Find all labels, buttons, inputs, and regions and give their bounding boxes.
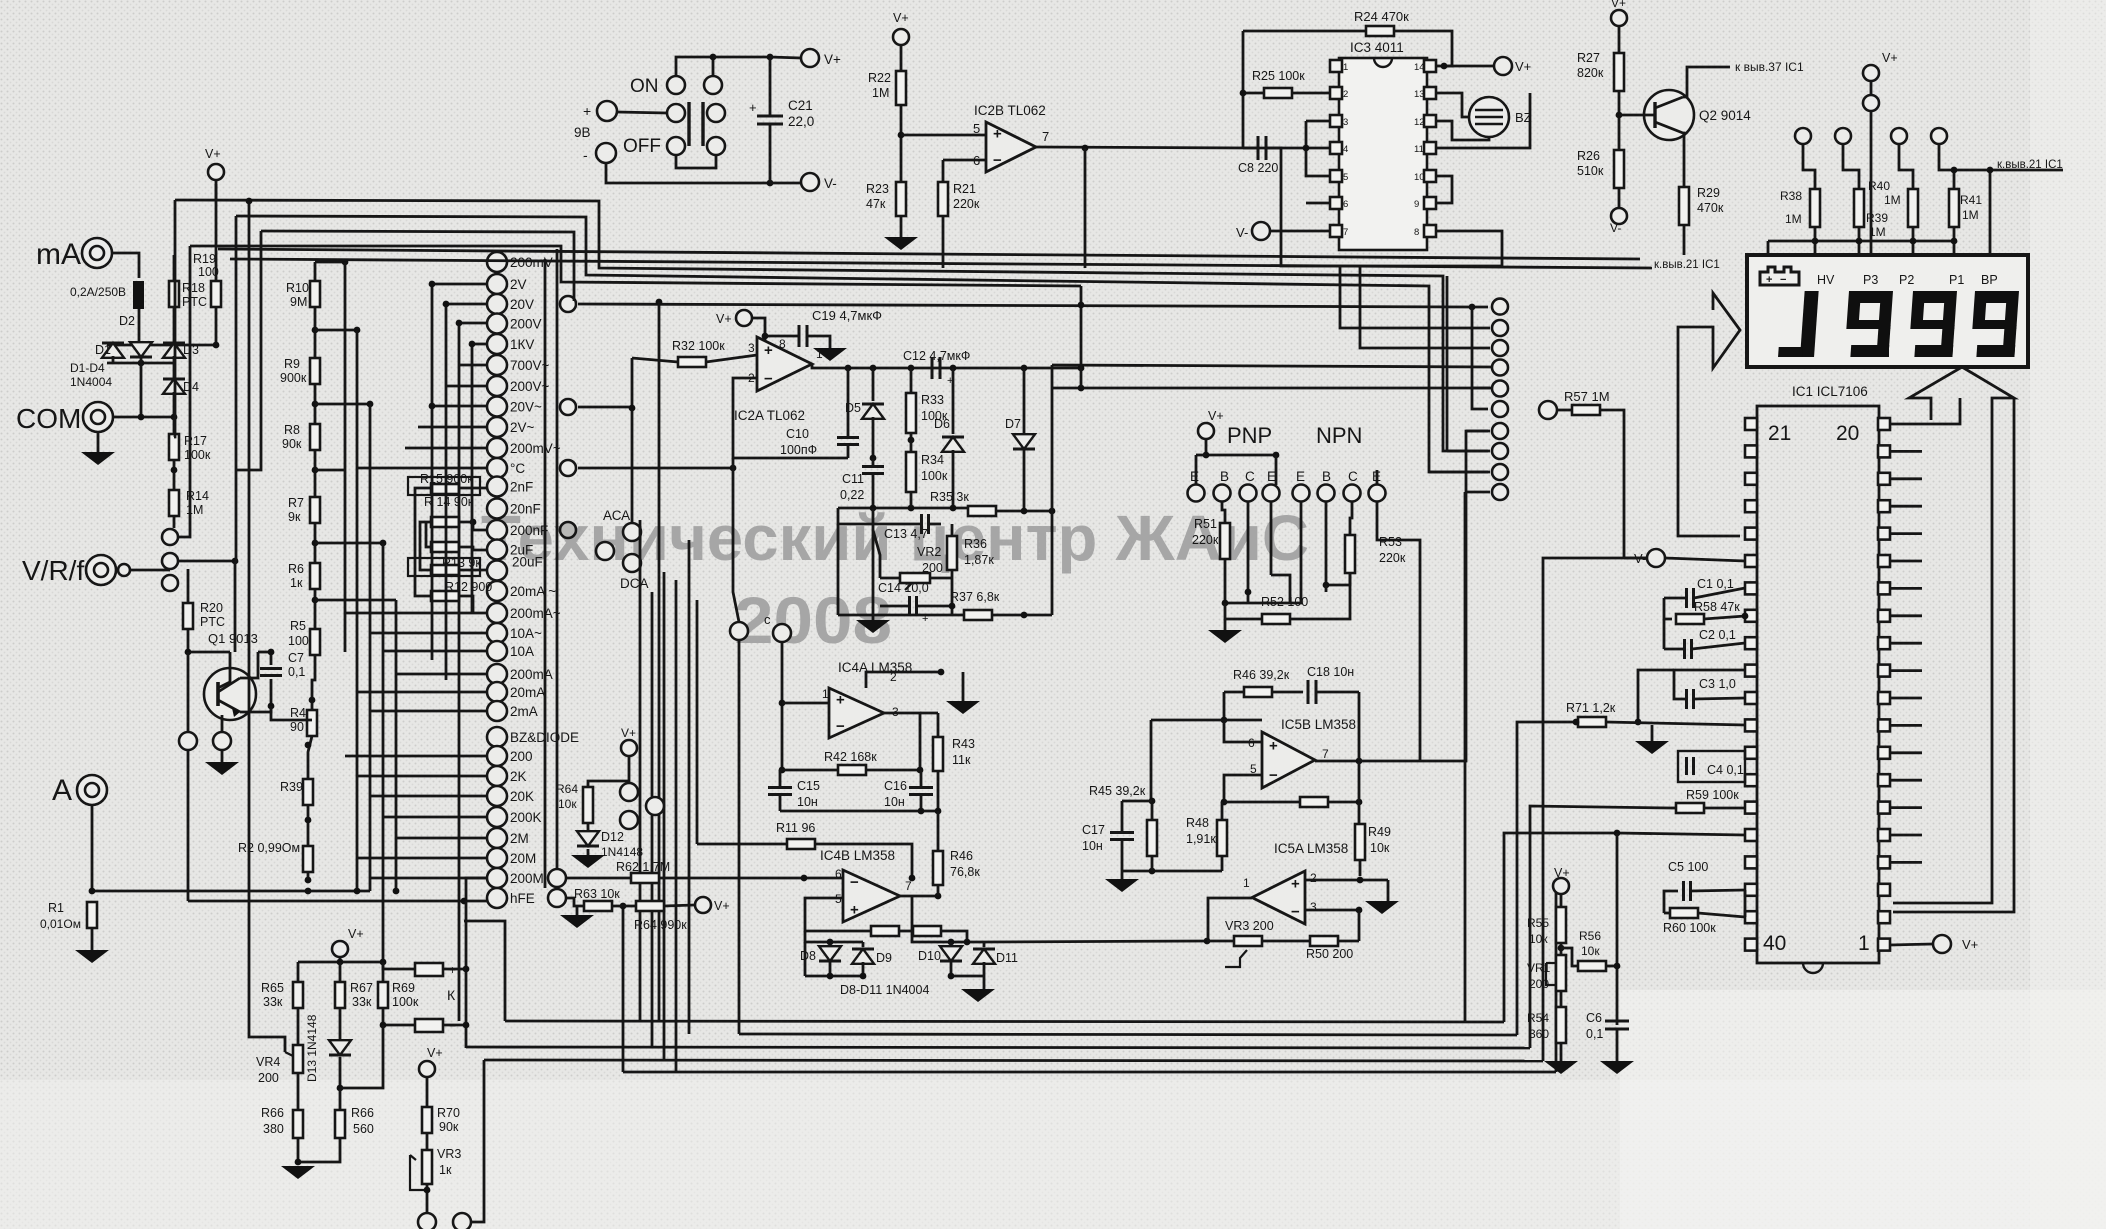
switch contact 2nF	[487, 477, 507, 497]
IC3 pin 14	[1424, 60, 1436, 72]
IC1 left pin 33	[1745, 747, 1757, 759]
R24 loop wires	[1243, 30, 1366, 33]
svg-text:C17: C17	[1082, 823, 1105, 837]
svg-text:470к: 470к	[1697, 201, 1724, 215]
resistor R70 90k	[422, 1107, 432, 1133]
svg-text:R2 0,99Ом: R2 0,99Ом	[238, 841, 300, 855]
IC1 left pin 28	[1745, 610, 1757, 622]
LCD body	[1747, 255, 2028, 367]
vertical bus x459	[458, 323, 461, 700]
diode D1	[102, 343, 124, 358]
wire D row top	[139, 344, 215, 347]
IC3 pin 2	[1330, 87, 1342, 99]
IC1 left pin 29	[1745, 637, 1757, 649]
svg-text:R19: R19	[193, 252, 216, 266]
wire mA to fuse	[112, 253, 139, 278]
svg-text:R26: R26	[1577, 149, 1600, 163]
IC4A output down R43	[884, 713, 920, 770]
bus к выв lines	[218, 249, 1640, 259]
svg-text:C7: C7	[288, 651, 304, 665]
wire BP to LCD	[1989, 170, 1992, 255]
wire R41 to label	[1954, 169, 2063, 172]
circle row 388 stub	[1472, 387, 1490, 390]
bottom bus lines	[505, 1021, 1504, 1022]
resistor R39	[303, 779, 313, 805]
svg-text:COM: COM	[16, 403, 81, 434]
svg-text:8: 8	[779, 337, 786, 351]
pin20 wire to arrow	[1890, 398, 1960, 424]
svg-text:R49: R49	[1368, 825, 1391, 839]
box resistor 1	[871, 926, 899, 936]
ground R63	[576, 906, 579, 915]
IC3 body	[1339, 58, 1427, 250]
switch contact 10A~	[487, 623, 507, 643]
switch contact °C	[487, 458, 507, 478]
contact circles left of V/R/f	[162, 529, 178, 545]
svg-text:V+: V+	[1882, 51, 1898, 65]
svg-text:11: 11	[1414, 144, 1424, 155]
svg-text:R69: R69	[392, 981, 415, 995]
V+ circle bottom right	[1933, 935, 1951, 953]
wire IC2A minus loop	[733, 378, 848, 458]
IC1 left pin 22	[1745, 445, 1757, 457]
svg-text:A: A	[52, 774, 72, 807]
node into op-amp +	[898, 132, 905, 139]
svg-text:7: 7	[1042, 129, 1049, 144]
IC1 left pin 23	[1745, 473, 1757, 485]
contact near ACA	[623, 523, 641, 541]
resistor R46 76.8k	[933, 851, 943, 885]
IC1 left pin 25	[1745, 528, 1757, 540]
box around R15	[408, 477, 480, 495]
resistor R54 360	[1556, 1007, 1566, 1043]
svg-text:V+: V+	[1208, 409, 1224, 423]
svg-text:к выв.37 IC1: к выв.37 IC1	[1735, 60, 1804, 74]
diode D2	[130, 342, 152, 357]
arrow into LCD left	[1678, 293, 1740, 536]
svg-text:6: 6	[973, 153, 980, 168]
V+ circle D12 area	[621, 740, 637, 756]
svg-text:+: +	[764, 342, 773, 359]
IC1 right pin 19	[1878, 445, 1890, 457]
switch contact 2uF	[487, 540, 507, 560]
vertical x466 relay feed	[465, 901, 468, 1048]
svg-text:1М: 1М	[1884, 193, 1901, 207]
svg-text:V+: V+	[824, 52, 841, 67]
IC1 right pin 3	[1878, 884, 1890, 896]
svg-text:V-: V-	[1236, 225, 1248, 240]
socket V+ feed	[1206, 439, 1276, 455]
diode D6	[942, 437, 964, 452]
capacitor C4 0.1 box	[1678, 751, 1745, 782]
LCD digit 9 second	[1908, 291, 1957, 357]
svg-text:P2: P2	[1899, 273, 1914, 287]
resistor R67 33k	[335, 982, 345, 1008]
diode D3	[163, 343, 185, 358]
ground below Q1	[221, 750, 224, 762]
feedback resistor IC5B	[1300, 797, 1328, 807]
svg-text:V+: V+	[893, 11, 909, 25]
svg-text:10к: 10к	[558, 797, 577, 811]
V- circle below R26	[1611, 208, 1627, 224]
vertical x659 down	[658, 302, 661, 1021]
svg-text:D12: D12	[601, 830, 624, 844]
battery minus circle	[596, 143, 616, 163]
svg-text:R46: R46	[950, 849, 973, 863]
resistor R43 11k	[933, 737, 943, 771]
svg-text:R57 1М: R57 1М	[1564, 389, 1610, 404]
resistor R66 380	[293, 1110, 303, 1138]
svg-text:R11 96: R11 96	[776, 821, 815, 835]
ground bottom-left	[281, 1166, 315, 1179]
vertical bundle mid x640-700	[639, 520, 642, 1021]
resistor r small	[431, 542, 459, 552]
resistor R41 1M	[1949, 189, 1959, 227]
vertical from output node	[1084, 148, 1087, 268]
diode D9	[852, 949, 874, 964]
IC1 left pin 35	[1745, 802, 1757, 814]
Q2 emitter to R29	[1683, 133, 1684, 187]
bus contact circle	[1492, 320, 1508, 336]
svg-text:C16: C16	[884, 779, 907, 793]
switch contact 2K	[487, 766, 507, 786]
IC1 right pin 2	[1878, 911, 1890, 923]
svg-text:−: −	[836, 718, 845, 735]
vertical bus x357	[356, 330, 359, 891]
diode D11	[973, 949, 995, 964]
switch contact hFE	[487, 888, 507, 908]
terminal mA	[82, 238, 112, 268]
svg-text:C12 4,7мкФ: C12 4,7мкФ	[903, 349, 970, 363]
svg-text:200mA~: 200mA~	[510, 606, 561, 621]
transistor Q2 9014	[1644, 90, 1694, 140]
svg-text:C4 0,1: C4 0,1	[1707, 763, 1744, 777]
svg-text:D1-D4: D1-D4	[70, 361, 105, 375]
svg-text:R52 100: R52 100	[1261, 595, 1308, 609]
V+ circle PNP	[1198, 423, 1214, 439]
vertical x739 to bottom bus	[738, 641, 741, 1034]
svg-text:IC1 ICL7106: IC1 ICL7106	[1792, 384, 1868, 399]
resistor R64b 10k	[583, 787, 593, 823]
circle row 492 stub	[1465, 491, 1490, 494]
svg-text:1,91к: 1,91к	[1186, 832, 1216, 846]
relay contact -	[415, 1019, 443, 1032]
svg-text:D10: D10	[918, 949, 941, 963]
IC1 right pin 6	[1878, 802, 1890, 814]
IC5 ground node	[1122, 870, 1222, 873]
svg-text:7: 7	[905, 879, 912, 893]
svg-text:3: 3	[748, 341, 755, 355]
IC1 right pin 9	[1878, 719, 1890, 731]
switch contact 2M	[487, 828, 507, 848]
terminal COM	[83, 402, 113, 432]
battery icon	[1760, 267, 1799, 285]
vertical bus x472	[471, 344, 474, 613]
resistor R36 1.87k	[947, 536, 957, 570]
svg-text:0,01Ом: 0,01Ом	[40, 917, 81, 931]
svg-text:1к: 1к	[439, 1163, 452, 1177]
terminal V/R/f	[86, 555, 116, 585]
IC1 right pin 12	[1878, 637, 1890, 649]
IC1 body	[1757, 406, 1879, 963]
resistor R39 1M	[1908, 189, 1918, 227]
svg-text:BP: BP	[1981, 273, 1998, 287]
IC2A right bus lines	[1052, 365, 1495, 367]
IC1 left pin 32	[1745, 719, 1757, 731]
IC3 pin 13	[1424, 87, 1436, 99]
relay contact +	[415, 963, 443, 976]
svg-text:R38: R38	[1780, 189, 1802, 203]
svg-text:200: 200	[258, 1071, 279, 1085]
svg-text:33к: 33к	[352, 995, 372, 1009]
svg-text:200M: 200M	[510, 871, 544, 886]
contacts near D12	[620, 783, 638, 801]
svg-text:R67: R67	[350, 981, 373, 995]
svg-text:11к: 11к	[952, 753, 971, 767]
resistor R23 47k	[896, 182, 906, 216]
K box stub to bus	[464, 921, 505, 1021]
IC1 right pin 8	[1878, 747, 1890, 759]
R55 V+ circle	[1553, 878, 1569, 894]
svg-text:C2 0,1: C2 0,1	[1699, 628, 1736, 642]
box resistor 2	[913, 926, 941, 936]
svg-text:IC3 4011: IC3 4011	[1350, 40, 1404, 55]
svg-text:1N4148: 1N4148	[601, 845, 643, 859]
wire A line right	[92, 890, 370, 893]
BZ wires	[1436, 93, 1469, 117]
svg-text:76,8к: 76,8к	[950, 865, 980, 879]
svg-text:9: 9	[1414, 199, 1419, 210]
IC1 right pin 16	[1878, 528, 1890, 540]
svg-text:380: 380	[263, 1122, 284, 1136]
svg-text:200nF: 200nF	[510, 523, 548, 538]
switch contact 20M	[487, 848, 507, 868]
svg-text:R51: R51	[1194, 517, 1217, 531]
svg-text:10A: 10A	[510, 644, 534, 659]
vertical bus x383	[382, 543, 385, 962]
IC4A pin2 wire up to ground	[866, 672, 941, 688]
svg-text:13: 13	[1414, 89, 1425, 100]
grounds R54 C6	[1560, 1043, 1563, 1061]
diode bottom wires	[805, 975, 863, 978]
buzzer BZ	[1469, 97, 1509, 137]
wire op-amp power	[764, 336, 767, 348]
wire Q1 collector to chain	[271, 706, 312, 720]
vertical x484 down	[462, 1060, 484, 1222]
diode D8	[819, 946, 841, 961]
svg-text:10к: 10к	[1370, 841, 1390, 855]
IC1 left pin 30	[1745, 665, 1757, 677]
V+ circle pair top right	[1863, 65, 1879, 81]
svg-text:R4: R4	[290, 706, 306, 720]
IC5B output	[1315, 760, 1359, 763]
svg-text:OFF: OFF	[623, 136, 661, 157]
svg-text:100к: 100к	[392, 995, 419, 1009]
svg-text:100к: 100к	[921, 469, 948, 483]
svg-text:−: −	[850, 874, 859, 891]
IC3 pin 4	[1330, 142, 1342, 154]
ground C14 left	[872, 508, 875, 620]
svg-text:V+: V+	[714, 899, 730, 913]
resistor R69 100k	[378, 982, 388, 1008]
svg-text:1М: 1М	[1785, 212, 1802, 226]
switch contact 20uF	[487, 561, 507, 581]
svg-text:IC2B TL062: IC2B TL062	[974, 103, 1046, 118]
svg-text:20nF: 20nF	[510, 502, 541, 517]
resistor R29 470k	[1679, 187, 1689, 225]
svg-text:8: 8	[1414, 227, 1419, 238]
diode D4	[163, 379, 185, 394]
label к выв.37 IC1	[1683, 67, 1730, 97]
capacitor C7 0.1	[260, 669, 282, 676]
svg-text:1: 1	[1858, 932, 1870, 955]
wire D row bottom	[107, 362, 174, 365]
wire COM to diodes	[113, 416, 174, 419]
circle row 451 and 472 links	[1447, 450, 1490, 453]
svg-text:IC4B LM358: IC4B LM358	[820, 848, 895, 863]
diode D13	[329, 1040, 351, 1055]
resistor R9 900k	[310, 358, 320, 384]
svg-text:C5 100: C5 100	[1668, 860, 1708, 874]
svg-text:1: 1	[1343, 62, 1348, 73]
bottom loop IC4A	[780, 810, 938, 813]
transistor emitter circles	[179, 732, 197, 750]
svg-text:R39: R39	[1866, 211, 1888, 225]
svg-text:C3 1,0: C3 1,0	[1699, 677, 1736, 691]
svg-text:3: 3	[1343, 117, 1348, 128]
svg-text:R48: R48	[1186, 816, 1209, 830]
node R37	[951, 592, 954, 615]
svg-text:1: 1	[822, 687, 829, 701]
IC1 left pin 24	[1745, 500, 1757, 512]
V+ circle IC2A	[736, 310, 752, 326]
bus line top1	[175, 200, 1488, 451]
wires cap range resistors	[459, 487, 487, 490]
IC3 pin 7	[1330, 225, 1342, 237]
switch contact 200mV	[487, 252, 507, 272]
svg-text:0,1: 0,1	[1586, 1027, 1603, 1041]
relay plus wire right	[443, 968, 466, 971]
svg-text:+: +	[836, 692, 845, 709]
switch contact 700V~	[487, 355, 507, 375]
svg-text:R9: R9	[284, 357, 300, 371]
svg-text:D2: D2	[119, 314, 135, 328]
wire VRf node	[131, 569, 170, 572]
switch contact 20V~	[487, 397, 507, 417]
resistor R19 100	[211, 281, 221, 307]
ground D11	[983, 976, 986, 989]
switch contact 1КV	[487, 334, 507, 354]
vertical bus x446	[445, 304, 448, 680]
svg-text:R6: R6	[288, 562, 304, 576]
svg-text:90к: 90к	[439, 1120, 459, 1134]
IC4B output	[900, 895, 938, 898]
contact 20V~ right	[560, 399, 576, 415]
ground below R23	[884, 237, 918, 250]
switch bars	[687, 102, 690, 146]
svg-text:R64: R64	[556, 782, 578, 796]
svg-text:9В: 9В	[574, 125, 591, 140]
svg-text:5: 5	[1343, 172, 1348, 183]
node D13 bottom	[337, 1085, 344, 1092]
svg-text:10к: 10к	[1581, 944, 1600, 958]
svg-text:0,1: 0,1	[288, 665, 305, 679]
svg-text:R42 168к: R42 168к	[824, 750, 877, 764]
bus line top4	[190, 246, 1081, 286]
wire emitter line y901	[188, 900, 487, 903]
svg-text:PNP: PNP	[1227, 423, 1272, 448]
switch ON contacts	[667, 76, 685, 94]
switch contact 10A	[487, 641, 507, 661]
V- circle battery	[801, 173, 819, 191]
contact °C right	[560, 460, 576, 476]
switch contact 200K	[487, 807, 507, 827]
IC1 right pin 13	[1878, 610, 1890, 622]
switch contact 20V	[487, 294, 507, 314]
vertical bus x370	[369, 404, 372, 891]
svg-text:R29: R29	[1697, 186, 1720, 200]
svg-text:10н: 10н	[884, 795, 905, 809]
bottom block top rail	[339, 957, 342, 962]
svg-text:20: 20	[1836, 422, 1859, 445]
chain taps	[315, 261, 345, 264]
svg-text:VR3 200: VR3 200	[1225, 919, 1274, 933]
bus contact circle	[1492, 423, 1508, 439]
wire IC2B output	[1036, 147, 1253, 148]
IC1 right pin 17	[1878, 500, 1890, 512]
switch contact 200V	[487, 314, 507, 334]
svg-text:R63 10к: R63 10к	[574, 887, 620, 901]
resistor R65 33k	[293, 982, 303, 1008]
svg-text:к.выв.21 IC1: к.выв.21 IC1	[1654, 259, 1720, 271]
svg-text:+: +	[749, 100, 757, 115]
IC1 left pin 36	[1745, 829, 1757, 841]
svg-text:R1: R1	[48, 901, 64, 915]
svg-text:700V~: 700V~	[510, 358, 550, 373]
svg-text:6: 6	[1343, 199, 1348, 210]
vertical x459 down	[458, 700, 461, 1021]
svg-text:2: 2	[1310, 871, 1317, 885]
svg-text:−: −	[1269, 767, 1278, 784]
left verticals	[174, 200, 175, 437]
svg-text:R22: R22	[868, 71, 891, 85]
ground right of IC4A	[962, 672, 965, 701]
diode D5	[862, 404, 884, 419]
IC3 right pin wires	[1436, 93, 1530, 148]
battery plus circle	[597, 101, 617, 121]
chain wires	[314, 262, 317, 281]
svg-text:20V: 20V	[510, 297, 534, 312]
resistor R8 90k	[310, 424, 320, 450]
IC1 right pin 4	[1878, 856, 1890, 868]
switch OFF contacts	[667, 137, 685, 155]
c contact pair	[730, 622, 748, 640]
diode top wires	[805, 931, 863, 942]
resistor R55 10k	[1556, 907, 1566, 943]
box around R13	[408, 558, 480, 576]
svg-text:2nF: 2nF	[510, 480, 533, 495]
svg-text:IC2A TL062: IC2A TL062	[734, 408, 805, 423]
wire c to minus loop	[733, 458, 739, 622]
arrow into LCD right	[1893, 367, 2014, 912]
svg-text:R32 100к: R32 100к	[672, 339, 725, 353]
svg-text:C18 10н: C18 10н	[1307, 665, 1354, 679]
svg-text:R60 100к: R60 100к	[1663, 921, 1716, 935]
svg-text:10н: 10н	[1082, 839, 1103, 853]
IC1 left pin 40	[1745, 939, 1757, 951]
resistor R38 1M	[1810, 189, 1820, 227]
svg-text:21: 21	[1768, 422, 1791, 445]
